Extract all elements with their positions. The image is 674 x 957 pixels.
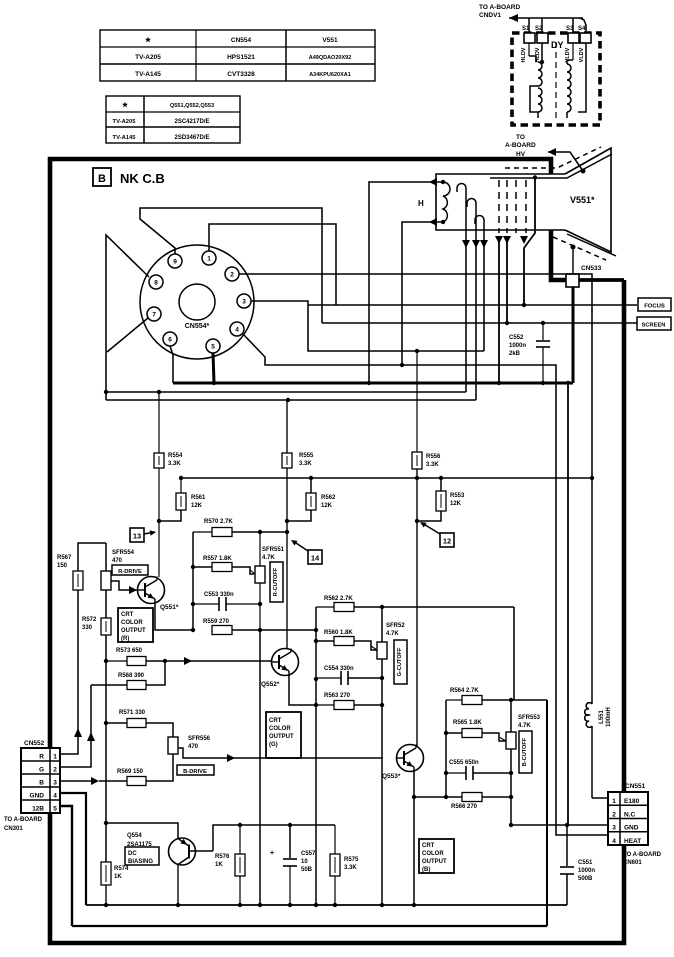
wire Q553 emitter down bbox=[413, 771, 415, 905]
svg-text:C554 330n: C554 330n bbox=[324, 666, 354, 672]
wire focus line to FOCUS terminal bbox=[251, 301, 637, 305]
svg-text:4.7K: 4.7K bbox=[262, 555, 275, 561]
svg-text:BIASING: BIASING bbox=[128, 859, 153, 865]
svg-text:G-CUTOFF: G-CUTOFF bbox=[397, 647, 403, 676]
socket pin 3 bbox=[237, 294, 251, 308]
svg-text:9: 9 bbox=[173, 259, 177, 266]
G ladder left column bbox=[315, 607, 317, 905]
pot SFR553 4.7K B-CUTOFF bbox=[506, 732, 516, 749]
wire pin2 to L551 E180 column bbox=[239, 274, 592, 478]
resistor R566 270 bbox=[462, 793, 482, 802]
svg-text:2: 2 bbox=[230, 272, 234, 279]
label G-CUTOFF bbox=[394, 640, 407, 684]
wire SFR556 bottom to R569 bbox=[146, 754, 173, 781]
svg-text:R564 2.7K: R564 2.7K bbox=[450, 688, 479, 694]
svg-text:L551: L551 bbox=[599, 710, 605, 724]
svg-text:1: 1 bbox=[53, 754, 57, 761]
socket pin 9 bbox=[168, 254, 182, 268]
svg-text:R561: R561 bbox=[191, 495, 206, 501]
wire Q554 emitter to left column bbox=[106, 823, 178, 839]
svg-text:FOCUS: FOCUS bbox=[644, 304, 665, 310]
svg-text:R566 270: R566 270 bbox=[451, 804, 478, 810]
horizontal deflection coil bbox=[528, 43, 530, 56]
svg-text:V551*: V551* bbox=[570, 195, 595, 205]
svg-text:TO: TO bbox=[516, 134, 525, 141]
FOCUS terminal box bbox=[638, 298, 671, 311]
svg-text:★: ★ bbox=[145, 36, 152, 44]
svg-text:R556: R556 bbox=[426, 454, 441, 460]
svg-text:CRT: CRT bbox=[121, 612, 134, 618]
svg-text:3.3K: 3.3K bbox=[426, 462, 439, 468]
svg-text:470: 470 bbox=[112, 558, 123, 564]
wire ground column to CN551 GND bbox=[567, 383, 569, 825]
svg-text:Q554: Q554 bbox=[127, 833, 142, 839]
callout 13 bbox=[130, 528, 144, 542]
svg-text:R-DRIVE: R-DRIVE bbox=[118, 569, 142, 575]
DY center dashed divider bbox=[555, 42, 557, 122]
svg-text:HEAT: HEAT bbox=[624, 838, 641, 845]
svg-text:CNDV1: CNDV1 bbox=[479, 12, 501, 19]
svg-text:330: 330 bbox=[82, 625, 93, 631]
svg-text:SCREEN: SCREEN bbox=[642, 323, 666, 329]
wire R555 to Q552 collector bbox=[286, 468, 288, 649]
wire heater left leg bbox=[402, 222, 429, 365]
wire pin6 starts ground bus bbox=[170, 346, 173, 383]
resistor R557 1.8K bbox=[212, 563, 232, 572]
wire R554 to Q551 collector bbox=[158, 468, 160, 577]
svg-text:100mH: 100mH bbox=[606, 707, 612, 727]
svg-text:S4: S4 bbox=[578, 26, 586, 32]
svg-text:3.3K: 3.3K bbox=[299, 461, 312, 467]
resistor R568 390 bbox=[127, 681, 146, 690]
bus R cathode y392 bbox=[106, 391, 466, 393]
svg-text:R555: R555 bbox=[299, 453, 314, 459]
wire Q551 emitter to ladder bbox=[155, 602, 193, 630]
svg-text:OUTPUT: OUTPUT bbox=[121, 628, 146, 634]
svg-text:4: 4 bbox=[612, 838, 616, 845]
heater arrows bbox=[429, 178, 437, 186]
bus E180 rail y478 bbox=[181, 477, 592, 479]
svg-text:N.C: N.C bbox=[624, 811, 636, 818]
wire Q554 collector to ground rail bbox=[177, 865, 179, 906]
svg-text:10: 10 bbox=[301, 859, 308, 865]
svg-text:CN533: CN533 bbox=[581, 265, 602, 272]
grid electrodes dashed bbox=[498, 180, 500, 233]
svg-text:C555 650n: C555 650n bbox=[449, 760, 479, 766]
svg-text:R562: R562 bbox=[321, 495, 336, 501]
svg-text:6: 6 bbox=[168, 337, 172, 344]
resistor R574 1K bbox=[101, 862, 111, 885]
svg-text:TV-A205: TV-A205 bbox=[135, 54, 161, 61]
label B-DRIVE bbox=[177, 765, 214, 775]
ground rail y905 bbox=[86, 904, 567, 906]
svg-text:R554: R554 bbox=[168, 453, 183, 459]
capacitor C553 330n bbox=[218, 597, 220, 611]
wire pin5 to ground bus thick bbox=[213, 353, 214, 383]
resistor R553 12K bbox=[436, 491, 446, 511]
CRT V551* envelope bbox=[436, 148, 616, 256]
svg-text:R572: R572 bbox=[82, 617, 97, 623]
thick ground wire CN533 down bbox=[572, 287, 575, 383]
wire 12B column right bbox=[546, 700, 548, 926]
svg-text:R573 650: R573 650 bbox=[116, 648, 143, 654]
vertical deflection coil bbox=[572, 43, 574, 60]
svg-text:OUTPUT: OUTPUT bbox=[269, 734, 294, 740]
wire screen electrode bbox=[506, 236, 508, 323]
resistor R567 150 bbox=[73, 571, 83, 590]
svg-text:SFR553: SFR553 bbox=[518, 715, 541, 721]
svg-text:DC: DC bbox=[128, 851, 137, 857]
wire pin7 slant joining left column bbox=[107, 318, 148, 352]
svg-text:CN552: CN552 bbox=[24, 740, 45, 747]
svg-text:4: 4 bbox=[53, 793, 57, 800]
svg-text:(R): (R) bbox=[121, 636, 129, 642]
svg-text:4: 4 bbox=[235, 327, 239, 334]
pot SFR552 4.7K G-CUTOFF bbox=[377, 642, 387, 659]
svg-text:CN554*: CN554* bbox=[185, 323, 210, 330]
inductor L551 100mH bbox=[585, 703, 592, 728]
socket CN554* body bbox=[140, 245, 254, 359]
svg-text:12: 12 bbox=[443, 537, 451, 546]
svg-text:TO A-BOARD: TO A-BOARD bbox=[4, 817, 43, 823]
R ladder left column bbox=[192, 532, 194, 630]
svg-text:V551: V551 bbox=[322, 37, 338, 44]
wire Q554 base to bias rail y825 bbox=[213, 825, 335, 851]
CRT COLOR OUTPUT (R) box bbox=[118, 608, 153, 642]
resistor R555 3.3K bbox=[282, 453, 292, 468]
CRT COLOR OUTPUT (G) box bbox=[266, 712, 301, 758]
svg-text:4.7K: 4.7K bbox=[386, 631, 399, 637]
wire CN552 12B pin to 12B rail bbox=[60, 806, 72, 926]
svg-text:2SD3467D/E: 2SD3467D/E bbox=[174, 135, 209, 141]
svg-text:12K: 12K bbox=[450, 501, 462, 507]
socket pin 6 bbox=[163, 332, 177, 346]
transistor Q552* bbox=[272, 649, 299, 676]
svg-text:2: 2 bbox=[612, 811, 616, 818]
svg-text:C557: C557 bbox=[301, 851, 316, 857]
svg-text:R563 270: R563 270 bbox=[324, 693, 351, 699]
wire cathode G column bbox=[475, 236, 477, 400]
svg-text:Q553*: Q553* bbox=[382, 773, 401, 780]
svg-text:8: 8 bbox=[154, 280, 158, 287]
resistor R575 3.3K bbox=[330, 854, 340, 876]
label DC BIASING box bbox=[125, 847, 159, 865]
svg-text:Q551,Q552,Q553: Q551,Q552,Q553 bbox=[170, 103, 214, 109]
svg-text:CN554: CN554 bbox=[231, 37, 252, 44]
svg-text:COLOR: COLOR bbox=[121, 620, 143, 626]
svg-text:CN301: CN301 bbox=[4, 826, 23, 832]
resistor R573 650 to Q552 base bbox=[104, 659, 108, 663]
GND line to CN551 pin3 bbox=[511, 824, 608, 826]
capacitor C557 10 50B bbox=[289, 825, 291, 858]
svg-text:4.7K: 4.7K bbox=[518, 723, 531, 729]
capacitor C554 330n bbox=[340, 671, 342, 685]
svg-text:3: 3 bbox=[242, 299, 246, 306]
svg-text:B-DRIVE: B-DRIVE bbox=[183, 769, 207, 775]
transistor Q554 2SA1175 DC BIASING bbox=[169, 838, 196, 865]
anode HV lead bbox=[581, 169, 586, 174]
svg-text:R574: R574 bbox=[114, 866, 129, 872]
svg-text:R: R bbox=[39, 754, 44, 761]
svg-text:(G): (G) bbox=[269, 742, 278, 748]
svg-text:R567: R567 bbox=[57, 555, 72, 561]
resistor R562 2.7K bbox=[334, 603, 354, 612]
svg-text:1K: 1K bbox=[215, 862, 223, 868]
svg-text:R559 270: R559 270 bbox=[203, 619, 230, 625]
svg-text:GND: GND bbox=[30, 793, 45, 800]
label R-CUTOFF bbox=[270, 562, 283, 602]
svg-text:VLDV: VLDV bbox=[579, 47, 585, 62]
table: Q551-Q553 part cross-reference bbox=[106, 96, 240, 143]
deflection yoke DY dashed enclosure bbox=[512, 33, 600, 125]
svg-text:E180: E180 bbox=[624, 798, 640, 805]
svg-text:R553: R553 bbox=[450, 493, 465, 499]
svg-text:CRT: CRT bbox=[269, 718, 282, 724]
svg-text:13: 13 bbox=[133, 532, 141, 541]
svg-text:Q551*: Q551* bbox=[160, 604, 179, 611]
socket pin 1 bbox=[202, 251, 216, 265]
svg-text:2SC4217D/E: 2SC4217D/E bbox=[174, 119, 209, 125]
resistor R554 3.3K bbox=[154, 453, 164, 468]
socket pin 5 bbox=[206, 339, 220, 353]
svg-text:NK C.B: NK C.B bbox=[120, 171, 165, 186]
wire CN552 GND pin to ground rail bbox=[60, 793, 86, 905]
svg-text:TO A-BOARD: TO A-BOARD bbox=[623, 852, 662, 858]
socket pin 4 bbox=[230, 322, 244, 336]
svg-text:A34KPU620XA1: A34KPU620XA1 bbox=[309, 72, 351, 78]
resistor R564 2.7K bbox=[462, 696, 482, 705]
svg-text:R576: R576 bbox=[215, 854, 230, 860]
label B-CUTOFF bbox=[519, 731, 532, 773]
socket pin 7 bbox=[147, 307, 161, 321]
wire SFR551 bottom to ground rail bbox=[259, 630, 261, 905]
svg-text:R562 2.7K: R562 2.7K bbox=[324, 596, 353, 602]
svg-text:HLDV: HLDV bbox=[521, 47, 527, 62]
svg-text:12K: 12K bbox=[321, 503, 333, 509]
connector CN533 bbox=[566, 274, 579, 287]
bus G cathode y401 bbox=[106, 399, 476, 401]
svg-text:14: 14 bbox=[311, 554, 320, 563]
pot SFR556 470 B-DRIVE bbox=[168, 737, 178, 754]
svg-text:SFR551: SFR551 bbox=[262, 547, 285, 553]
CRT COLOR OUTPUT (B) box bbox=[419, 839, 454, 873]
svg-text:CN551: CN551 bbox=[625, 783, 646, 790]
svg-text:TV-A145: TV-A145 bbox=[135, 71, 161, 78]
svg-text:12B: 12B bbox=[32, 806, 44, 813]
wire pin8 slant to left column bbox=[106, 235, 149, 400]
svg-text:B: B bbox=[39, 780, 44, 787]
svg-text:12K: 12K bbox=[191, 503, 203, 509]
svg-text:3: 3 bbox=[53, 780, 57, 787]
table: CN554/V551 part cross-reference bbox=[100, 30, 375, 81]
svg-text:A-BOARD: A-BOARD bbox=[505, 142, 536, 149]
svg-text:SFR556: SFR556 bbox=[188, 736, 211, 742]
svg-text:TO A-BOARD: TO A-BOARD bbox=[479, 4, 520, 11]
svg-text:C551: C551 bbox=[578, 860, 593, 866]
capacitor C552 1000n 2kB bbox=[542, 323, 544, 340]
wire to CNDV1 with arrow bbox=[509, 17, 583, 19]
svg-text:TV-A205: TV-A205 bbox=[113, 119, 137, 125]
svg-text:1000n: 1000n bbox=[509, 343, 526, 349]
svg-text:HPS1521: HPS1521 bbox=[227, 54, 255, 61]
ground bus y383 thick bbox=[173, 382, 573, 385]
svg-text:2: 2 bbox=[53, 767, 57, 774]
label R-DRIVE bbox=[112, 565, 148, 575]
resistor R572 330 bbox=[101, 618, 111, 635]
svg-text:R565 1.8K: R565 1.8K bbox=[453, 720, 482, 726]
connector CN551 bbox=[608, 792, 648, 845]
svg-text:CVT3328: CVT3328 bbox=[227, 71, 255, 78]
capacitor C551 1000n 500B bbox=[566, 825, 568, 866]
potentiometer SFR551 4.7K R-CUTOFF bbox=[255, 566, 265, 583]
wire SFR556 wiper to Q553 base bbox=[178, 748, 383, 758]
svg-text:★: ★ bbox=[122, 101, 129, 109]
svg-text:OUTPUT: OUTPUT bbox=[422, 859, 447, 865]
svg-text:2kB: 2kB bbox=[509, 351, 521, 357]
wire B cathode column bbox=[483, 236, 485, 351]
wire heater right leg to ground bus bbox=[369, 182, 429, 383]
svg-text:R560 1.8K: R560 1.8K bbox=[324, 630, 353, 636]
svg-text:B-CUTOFF: B-CUTOFF bbox=[522, 737, 528, 766]
svg-text:R557 1.8K: R557 1.8K bbox=[203, 556, 232, 562]
resistor R569 150 bbox=[127, 777, 146, 786]
svg-text:5: 5 bbox=[53, 806, 57, 813]
svg-text:150: 150 bbox=[57, 563, 68, 569]
resistor R563 270 bbox=[334, 701, 354, 710]
svg-text:1: 1 bbox=[612, 798, 616, 805]
resistor R565 1.8K bbox=[462, 729, 482, 738]
resistor R560 1.8K bbox=[334, 637, 354, 646]
svg-text:C552: C552 bbox=[509, 335, 524, 341]
svg-text:COLOR: COLOR bbox=[422, 851, 444, 857]
svg-text:R-CUTOFF: R-CUTOFF bbox=[273, 567, 279, 596]
resistor R562 12K bbox=[306, 493, 316, 510]
wire CRT coating to CN533 bbox=[571, 245, 576, 250]
transistor Q553* bbox=[397, 745, 424, 772]
wire SFR554 wiper to Q551 base bbox=[111, 581, 124, 590]
SCREEN terminal box bbox=[637, 317, 671, 330]
wire pin4 heater feed bbox=[243, 334, 608, 835]
svg-text:(B): (B) bbox=[422, 867, 430, 873]
resistor R556 3.3K bbox=[412, 452, 422, 469]
svg-text:50B: 50B bbox=[301, 867, 313, 873]
svg-text:SFR52: SFR52 bbox=[386, 623, 405, 629]
svg-text:R569 150: R569 150 bbox=[117, 769, 144, 775]
wire focus electrode bbox=[524, 177, 535, 305]
board outline B NK C.B bbox=[50, 159, 624, 943]
svg-text:B: B bbox=[98, 173, 106, 185]
capacitor C555 650n bbox=[465, 766, 467, 780]
svg-text:3.3K: 3.3K bbox=[168, 461, 181, 467]
connector CN552 bbox=[21, 748, 60, 813]
callout 12 bbox=[440, 533, 454, 547]
svg-text:470: 470 bbox=[188, 744, 199, 750]
wire G row down to B row bbox=[513, 607, 515, 700]
svg-text:C553 330n: C553 330n bbox=[204, 592, 234, 598]
wire screen line to SCREEN terminal bbox=[322, 322, 637, 324]
pot SFR554 470 R-DRIVE bbox=[101, 571, 111, 590]
label B bbox=[93, 168, 111, 186]
CRT funnel dashed contour bbox=[505, 147, 601, 168]
thick ground wire CN533 to right border bbox=[579, 278, 624, 282]
cathode G electrode bbox=[467, 199, 476, 237]
wire R556 to Q553 collector bbox=[416, 469, 418, 746]
wire L551 to CN551 pin1 bbox=[592, 797, 608, 799]
svg-text:R568 390: R568 390 bbox=[118, 673, 145, 679]
12B rail y926 bbox=[72, 925, 547, 927]
electrode lead arrows bbox=[462, 240, 470, 248]
node: pin3 feeds bus-351 bbox=[308, 305, 484, 351]
B ladder left column bbox=[445, 700, 447, 797]
resistor R570 2.7K bbox=[212, 528, 232, 537]
svg-text:7: 7 bbox=[152, 312, 156, 319]
svg-text:G: G bbox=[39, 767, 44, 774]
resistor R559 270 bbox=[212, 626, 232, 635]
svg-text:1K: 1K bbox=[114, 874, 122, 880]
svg-text:3.3K: 3.3K bbox=[344, 865, 357, 871]
wire pin1 to focus feed bbox=[209, 224, 336, 305]
resistor R561 12K bbox=[176, 493, 186, 510]
svg-text:DY: DY bbox=[551, 40, 564, 50]
wire R568 to CN552 G pin bbox=[60, 685, 91, 767]
svg-text:5: 5 bbox=[211, 344, 215, 351]
callout 14 bbox=[308, 550, 322, 564]
svg-text:TV-A145: TV-A145 bbox=[113, 135, 137, 141]
svg-text:A49QDAO20X92: A49QDAO20X92 bbox=[309, 55, 352, 61]
svg-text:R571 330: R571 330 bbox=[119, 710, 146, 716]
svg-text:H: H bbox=[418, 199, 424, 208]
svg-text:3: 3 bbox=[612, 825, 616, 832]
svg-text:CN601: CN601 bbox=[623, 860, 642, 866]
svg-text:1: 1 bbox=[207, 256, 211, 263]
svg-text:SFR554: SFR554 bbox=[112, 550, 135, 556]
svg-text:1000n: 1000n bbox=[578, 868, 595, 874]
heater winding bbox=[429, 181, 443, 183]
cathode R electrode bbox=[457, 184, 466, 237]
wire R567 to CN552 R pin bbox=[60, 590, 78, 754]
wire pin9 to screen bus bbox=[140, 208, 322, 323]
wire Q552 emitter to G ladder bbox=[289, 674, 316, 705]
resistor R571 330 bbox=[127, 719, 146, 728]
socket pin 8 bbox=[149, 275, 163, 289]
svg-text:Q552*: Q552* bbox=[261, 681, 280, 688]
svg-text:R575: R575 bbox=[344, 857, 359, 863]
socket pin 2 bbox=[225, 267, 239, 281]
cathode B electrode bbox=[475, 216, 484, 237]
svg-text:R570 2.7K: R570 2.7K bbox=[204, 519, 233, 525]
svg-text:CRT: CRT bbox=[422, 843, 435, 849]
svg-text:COLOR: COLOR bbox=[269, 726, 291, 732]
svg-text:GND: GND bbox=[624, 825, 639, 832]
svg-text:+: + bbox=[270, 850, 274, 857]
wire cathode R column bbox=[465, 236, 467, 392]
resistor R576 1K bbox=[235, 854, 245, 876]
wire grid1 to ground bus bbox=[498, 236, 500, 383]
svg-text:500B: 500B bbox=[578, 876, 593, 882]
transistor Q551* bbox=[138, 577, 165, 604]
svg-text:HV: HV bbox=[516, 151, 526, 158]
